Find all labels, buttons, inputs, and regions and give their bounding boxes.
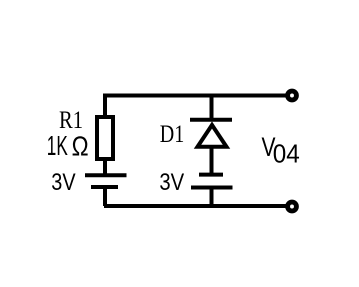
svg-text:1K: 1K	[47, 130, 68, 161]
svg-text:Ω: Ω	[72, 130, 89, 161]
wire: top rail down to diode cathode	[210, 96, 214, 121]
svg-text:3V: 3V	[159, 169, 184, 196]
svg-text:D1: D1	[160, 119, 185, 148]
resistor R1 body	[97, 117, 113, 159]
battery B1 plus plate (long)	[85, 173, 127, 177]
battery B2 minus plate (short, top)	[199, 173, 223, 177]
wire: bottom rail	[104, 204, 288, 208]
wire: resistor to battery B1	[103, 159, 107, 175]
terminal: top-right output	[288, 91, 297, 100]
diode D1 triangle (anode, pointing up)	[198, 125, 227, 147]
battery B2 plus plate (long, bottom)	[191, 186, 233, 190]
wire: battery B1 to bottom rail	[103, 187, 107, 206]
diode D1 cathode bar	[190, 118, 232, 122]
svg-text:04: 04	[273, 141, 300, 169]
wire: battery B2 to bottom rail	[210, 188, 214, 207]
svg-text:3V: 3V	[51, 169, 76, 196]
terminal: bottom-right output	[288, 202, 297, 211]
battery B1 minus plate (short)	[91, 185, 118, 189]
wire: diode anode to battery B2	[210, 147, 214, 175]
wire: top rail with left corner down to resistor	[105, 96, 288, 118]
